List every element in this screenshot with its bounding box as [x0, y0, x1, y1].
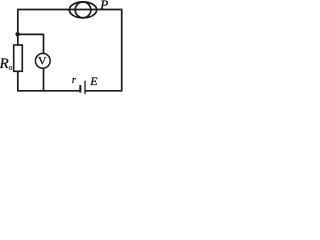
wire: voltmeter branch vertical upper	[43, 34, 45, 54]
wire: right vertical	[121, 10, 123, 91]
svg-text:r: r	[72, 75, 76, 86]
wire: left vertical upper segment (resistor top to top-left corner)	[17, 10, 19, 46]
svg-text:R: R	[0, 56, 9, 72]
voltmeter V (circle meter)	[35, 53, 50, 68]
svg-text:P: P	[99, 0, 108, 12]
battery cell: long plate	[84, 81, 86, 94]
wire: bottom right segment (corner to battery long plate)	[85, 90, 123, 92]
svg-text:E: E	[89, 74, 98, 88]
wire: bottom left segment (battery short plate to bottom-left corner)	[17, 90, 80, 92]
wire: voltmeter branch vertical lower	[43, 68, 45, 90]
lamp P (ellipse with inscribed circle on top wire)	[69, 2, 96, 18]
svg-text:0: 0	[9, 65, 12, 72]
wire: voltmeter branch horizontal	[18, 33, 44, 35]
svg-text:V: V	[38, 54, 47, 68]
battery cell: short plate (internal resistance side)	[79, 85, 81, 93]
node: junction of voltmeter branch on left wire	[15, 32, 19, 36]
wire: top horizontal (through lamp)	[17, 9, 122, 11]
wire: left vertical lower segment (resistor bottom to bottom-left corner)	[17, 71, 19, 91]
resistor R0 (rectangle on left wire)	[14, 45, 23, 71]
